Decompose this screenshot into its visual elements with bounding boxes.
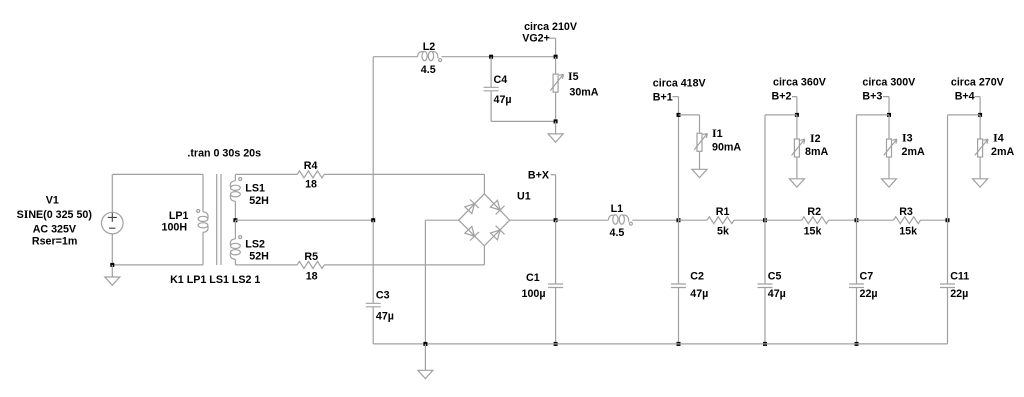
wire R5 to bridge bottom (324, 264, 484, 266)
svg-text:18: 18 (306, 270, 318, 282)
wire LS2 bottom to R5 (235, 264, 297, 266)
svg-text:R1: R1 (716, 206, 730, 218)
junction C2 ground rail (677, 342, 681, 346)
junction center tap (233, 218, 237, 222)
wire C5 bottom lead (764, 288, 766, 344)
ground at I1 (692, 169, 707, 177)
capacitor C2 (671, 284, 686, 288)
svg-text:VG2+: VG2+ (522, 33, 550, 45)
wire C3 bottom lead (372, 307, 374, 344)
wire center tap to LS2 (234, 220, 236, 239)
wire center node vertical to L2 (372, 57, 374, 221)
junction V1 ground node (110, 263, 114, 267)
svg-text:Rser=1m: Rser=1m (32, 235, 77, 247)
svg-text:C4: C4 (494, 74, 508, 86)
wire bridge right to B+X (510, 219, 556, 221)
svg-text:100µ: 100µ (522, 288, 546, 300)
wire V1 bottom to LP1 (112, 264, 203, 266)
wire I5 top lead (555, 57, 557, 74)
diode U1 upper-right (489, 199, 504, 214)
svg-text:47µ: 47µ (494, 94, 512, 106)
svg-text:C7: C7 (860, 271, 874, 283)
wire I2 bottom lead (796, 158, 798, 179)
junction B+4 I4 tap (978, 113, 982, 117)
svg-text:B+4: B+4 (955, 91, 975, 103)
capacitor C3 (366, 303, 381, 307)
svg-text:R5: R5 (304, 251, 318, 263)
wire LS1 to center tap (234, 201, 236, 220)
svg-text:C2: C2 (690, 271, 704, 283)
wire L1 to B+1 node (632, 219, 678, 221)
junction B+3 I3 tap (887, 113, 891, 117)
ground at I3 (882, 179, 897, 187)
svg-text:C1: C1 (526, 272, 540, 284)
wire B+2 to R2 (765, 219, 802, 221)
svg-text:I1: I1 (712, 126, 723, 140)
junction B+1 rail (677, 218, 681, 222)
wire I5 bottom lead (555, 92, 557, 121)
junction B+2 rail (763, 218, 767, 222)
svg-text:circa 300V: circa 300V (862, 76, 916, 88)
svg-text:18: 18 (305, 178, 317, 190)
wire LS1 top to R4 (235, 173, 297, 175)
wire ground stub I5 (555, 121, 557, 133)
junction ground rail main (423, 342, 427, 346)
wire V1 top to LP1 (112, 173, 203, 175)
svg-text:B+X: B+X (528, 170, 550, 182)
svg-text:K1 LP1 LS1 LS2 1: K1 LP1 LS1 LS2 1 (170, 274, 260, 286)
capacitor C4 (484, 87, 499, 91)
wire VG2+ label stub (549, 38, 556, 57)
wire ground rail (373, 343, 947, 345)
resistor R2 (802, 217, 829, 224)
svg-text:V1: V1 (46, 195, 59, 207)
ground at I5 (548, 134, 563, 142)
current source I1 (694, 133, 707, 151)
wire R3 to B+4 node (921, 219, 948, 221)
wire I2 top lead (796, 115, 798, 139)
svg-text:30mA: 30mA (569, 87, 598, 99)
resistor R1 (707, 217, 734, 224)
wire B+1 vertical (678, 97, 680, 221)
svg-text:2mA: 2mA (991, 146, 1014, 158)
resistor R5 (297, 261, 324, 268)
svg-text:2mA: 2mA (902, 146, 925, 158)
svg-text:LP1: LP1 (169, 210, 189, 222)
svg-text:8mA: 8mA (805, 146, 828, 158)
inductor LP1 winding (203, 212, 208, 218)
wire B+2 label stub (792, 97, 797, 115)
svg-text:circa 360V: circa 360V (773, 76, 827, 88)
wire B+3 label stub (883, 97, 889, 115)
wire B+3 tap to vertical (857, 114, 890, 116)
current source I5 (550, 74, 563, 92)
wire to L2 (373, 56, 417, 58)
svg-text:4.5: 4.5 (421, 64, 436, 76)
wire B+2 tap to vertical (765, 114, 797, 116)
wire V1 top lead (111, 174, 113, 212)
wire B+3 vertical (856, 115, 858, 220)
svg-text:R3: R3 (899, 206, 913, 218)
svg-text:100H: 100H (162, 222, 188, 234)
wire C5 top lead (764, 220, 766, 284)
svg-text:22µ: 22µ (860, 288, 878, 300)
svg-text:B+3: B+3 (862, 91, 882, 103)
junction B+4 rail (946, 218, 950, 222)
capacitor C11 (940, 284, 955, 288)
capacitor C5 (758, 284, 773, 288)
transformer core K1 (217, 174, 221, 265)
wire B+1 to R1 (679, 219, 708, 221)
wire I1 bottom lead (699, 152, 701, 170)
wire bridge left vertex (425, 219, 458, 221)
junction center tap at C3 (371, 218, 375, 222)
svg-text:47µ: 47µ (376, 311, 394, 323)
svg-text:47µ: 47µ (768, 288, 786, 300)
wire C4 top lead (490, 57, 492, 88)
svg-text:U1: U1 (517, 191, 531, 203)
svg-text:B+1: B+1 (653, 92, 673, 104)
svg-text:.tran 0 30s 20s: .tran 0 30s 20s (187, 148, 261, 160)
wire B+4 vertical (947, 115, 949, 220)
svg-text:C5: C5 (768, 271, 782, 283)
wire LS1 top lead (234, 174, 236, 180)
diode U1 upper-left (464, 199, 479, 214)
wire I3 bottom lead (888, 158, 890, 179)
svg-text:AC 325V: AC 325V (33, 224, 77, 236)
svg-text:C11: C11 (950, 271, 969, 283)
junction C5 ground rail (763, 342, 767, 346)
svg-text:R2: R2 (807, 206, 821, 218)
wire C11 top lead (947, 220, 949, 284)
wire R2 to B+3 node (829, 219, 857, 221)
wire ground stub V1 (111, 265, 113, 277)
svg-text:22µ: 22µ (950, 288, 968, 300)
wire center tap to C3 node (235, 219, 373, 221)
wire down to bridge top vertex (483, 174, 485, 193)
svg-text:15k: 15k (899, 225, 917, 237)
inductor LS2 winding (230, 239, 235, 245)
wire V1 bottom lead (111, 234, 113, 265)
wire L2 to VG2 node (442, 56, 556, 58)
svg-text:52H: 52H (249, 195, 269, 207)
svg-text:15k: 15k (804, 225, 822, 237)
ground at I4 (973, 179, 988, 187)
wire C7 bottom lead (856, 288, 858, 344)
wire up to bridge bottom vertex (483, 246, 485, 265)
junction B+X (554, 218, 558, 222)
wire C1 bottom lead (555, 288, 557, 344)
wire B+2 vertical (764, 115, 766, 220)
inductor L2 (418, 52, 424, 57)
current source I2 (792, 139, 805, 157)
svg-text:L2: L2 (423, 41, 436, 53)
svg-text:LS1: LS1 (245, 183, 265, 195)
capacitor C1 (548, 284, 563, 288)
junction C1 ground rail (554, 342, 558, 346)
wire I4 top lead (979, 115, 981, 139)
junction C4 top (489, 55, 493, 59)
svg-text:C3: C3 (376, 289, 390, 301)
svg-text:I5: I5 (568, 69, 579, 83)
wire B+1 label stub (672, 96, 678, 98)
svg-text:90mA: 90mA (712, 142, 741, 154)
wire R4 to bridge top (324, 173, 484, 175)
wire C7 top lead (856, 220, 858, 284)
junction B+1 I1 tap (677, 113, 681, 117)
svg-text:I2: I2 (810, 131, 821, 145)
wire B+X to L1 (556, 219, 609, 221)
wire B+3 to R3 (857, 219, 894, 221)
junction I5 bottom (554, 119, 558, 123)
wire B+4 label stub (975, 97, 980, 115)
current source I3 (884, 139, 897, 157)
voltage source V1 (102, 212, 124, 234)
wire C2 top lead (678, 220, 680, 284)
wire C11 bottom lead (947, 288, 949, 344)
wire B+1 to I1 (679, 114, 700, 116)
svg-text:L1: L1 (611, 203, 624, 215)
wire B+X label stub (551, 174, 556, 176)
svg-text:R4: R4 (304, 160, 318, 172)
svg-text:LS2: LS2 (245, 239, 265, 251)
wire C4 bottom lead (490, 91, 492, 122)
junction C7 ground rail (855, 342, 859, 346)
wire B+X vertical top (555, 175, 557, 221)
junction B+2 I2 tap (795, 113, 799, 117)
junction I5 top (554, 55, 558, 59)
svg-text:4.5: 4.5 (610, 227, 625, 239)
wire LP1 bottom lead (202, 232, 204, 265)
wire ground stub main (424, 344, 426, 370)
svg-text:47µ: 47µ (690, 288, 708, 300)
resistor R4 (297, 171, 324, 178)
ground at I2 (789, 179, 804, 187)
svg-text:circa 418V: circa 418V (653, 78, 707, 90)
wire B+X to C1 (555, 220, 557, 284)
svg-text:circa 210V: circa 210V (524, 21, 578, 33)
wire C2 bottom lead (678, 288, 680, 344)
wire C3 top lead (372, 220, 374, 303)
svg-text:52H: 52H (249, 251, 269, 263)
wire R1 to B+2 node (734, 219, 765, 221)
wire B+4 tap to vertical (948, 114, 981, 116)
current source I4 (975, 139, 988, 157)
svg-text:I4: I4 (993, 131, 1004, 145)
svg-text:I3: I3 (902, 131, 913, 145)
ground at V1 (105, 277, 120, 285)
diode U1 lower-right (489, 226, 504, 241)
wire C4 to I5 bottom (491, 120, 555, 122)
svg-text:5k: 5k (717, 225, 729, 237)
svg-text:B+2: B+2 (772, 91, 792, 103)
inductor LS1 winding (230, 181, 235, 187)
svg-text:circa 270V: circa 270V (951, 76, 1005, 88)
inductor L1 (608, 215, 614, 220)
wire LP1 top lead (202, 174, 204, 212)
junction B+3 rail (855, 218, 859, 222)
diode U1 lower-left (464, 225, 479, 240)
resistor R3 (894, 217, 921, 224)
svg-text:SINE(0 325 50): SINE(0 325 50) (17, 207, 93, 221)
diode bridge U1 outline (459, 194, 510, 246)
wire I1 top lead (699, 115, 701, 133)
wire LS2 bottom lead (234, 259, 236, 265)
wire I3 top lead (888, 115, 890, 139)
capacitor C7 (849, 284, 864, 288)
wire bridge left to ground rail (424, 220, 426, 344)
ground main (418, 370, 433, 378)
wire I4 bottom lead (979, 158, 981, 179)
